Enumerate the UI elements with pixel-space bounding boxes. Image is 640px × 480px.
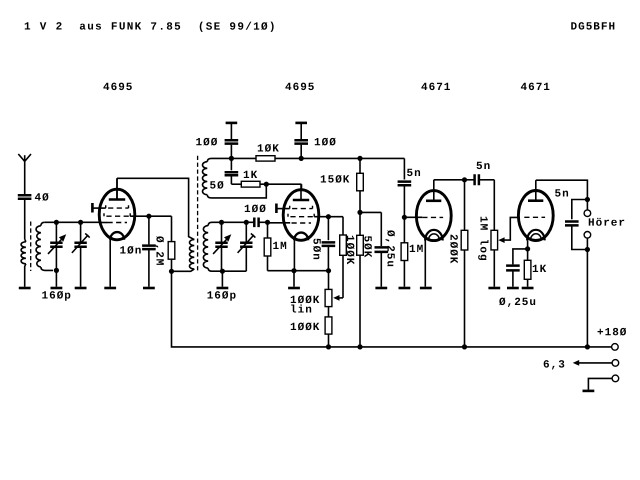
svg-text:1ØØK: 1ØØK [290,322,320,334]
wire grid line stage2 [212,221,253,223]
ground 1K [522,287,534,290]
ground 10n [143,287,155,290]
capacitor 50n [327,217,329,241]
wiper arrow 1M log [498,237,504,243]
capacitor 5n (detector out) [360,157,404,159]
terminal +180 [612,344,619,351]
svg-text:2ØØK: 2ØØK [447,234,459,264]
wire 1M bottom [268,270,329,272]
wire screen line [212,157,257,159]
node [54,268,59,273]
node [291,268,296,273]
node [402,215,407,220]
svg-text:Ø,25u: Ø,25u [384,230,396,268]
node [244,220,249,225]
tube V3 4671 [416,191,451,241]
ground C1 [55,270,57,286]
svg-text:1ØØ: 1ØØ [244,204,267,216]
svg-text:5Ø: 5Ø [209,181,224,193]
ground 0,25u [507,287,519,290]
wire to rail [586,250,588,347]
svg-text:1K: 1K [532,264,547,276]
svg-text:5Øn: 5Øn [310,238,322,261]
wire V4 anode [536,180,588,199]
wire V3 anode [434,179,465,181]
capacitor 100 (second) [295,122,307,125]
ground 1M log [488,287,500,290]
transformer L1 primary [25,239,26,242]
capacitor 50 [230,158,232,170]
node [219,220,224,225]
svg-text:1Øn: 1Øn [119,246,142,258]
resistor 10K [256,156,275,161]
svg-text:1ØK: 1ØK [257,144,280,156]
node [357,156,362,161]
core L1 [30,222,32,272]
capacitor 0,25u [375,247,389,252]
svg-text:4Ø: 4Ø [34,193,49,205]
node [462,177,467,182]
transformer L1 secondary [41,222,45,226]
svg-text:5ØK: 5ØK [361,236,373,259]
wire V4 cathode [527,240,529,249]
node [525,246,530,251]
antenna [18,154,31,161]
node [299,156,304,161]
tube V1 4695 [99,189,135,240]
trimmer capacitor C4 [245,222,247,242]
ground V2 cathode [293,271,295,287]
node [220,269,225,274]
potentiometer 1M log [493,180,495,231]
wire to 0,25u [360,211,381,213]
node [326,344,331,349]
ground 1M [399,287,411,290]
node [146,214,151,219]
svg-text:1ØØ: 1ØØ [314,137,337,149]
node [585,197,590,202]
svg-text:Ø,2M: Ø,2M [153,236,165,266]
supply rail +180 [172,271,612,347]
transformer L2 primary [189,240,194,270]
ground V3 cathode [420,287,432,290]
wire V3 cathode [424,240,426,286]
node [357,344,362,349]
terminal 6,3 heater [612,360,619,367]
svg-text:1K: 1K [243,170,258,182]
resistor 50K [357,235,364,255]
resistor 200K [464,180,466,231]
capacitor 5n (headphone) [572,200,588,220]
capacitor 10n [148,216,150,244]
svg-text:4671: 4671 [520,82,550,94]
svg-text:DG5BFH: DG5BFH [570,22,616,34]
node [326,268,331,273]
svg-text:1M: 1M [409,244,424,256]
resistor 100K (lower) [325,317,332,334]
wire to V2 anode [301,184,303,190]
trimmer capacitor C2 [80,222,82,242]
resistor 1M (V3 grid) [403,217,405,243]
wire V1 cathode [109,240,111,287]
svg-text:1ØØK: 1ØØK [343,235,355,265]
node [265,220,270,225]
svg-text:15ØK: 15ØK [320,175,350,187]
svg-text:4695: 4695 [285,82,315,94]
svg-text:5n: 5n [554,189,569,201]
wire V2 grid2 right [314,216,343,218]
headphone terminal bottom [584,232,591,239]
terminal heater ground [612,375,619,382]
svg-text:5n: 5n [476,161,491,173]
wire V1 grid left [99,222,107,224]
resistor 1K [231,183,241,185]
resistor 0,2M [171,216,173,241]
capacitor 40 [18,195,32,199]
svg-text:1ØØ: 1ØØ [195,137,218,149]
svg-text:Ø,25u: Ø,25u [499,297,537,309]
node [169,269,174,274]
node [264,182,269,187]
node [78,220,83,225]
ground stage2 tank [221,271,223,287]
wire grid line stage1 [45,221,100,223]
ground antenna coil [19,287,31,290]
headphone terminal top [586,200,588,210]
resistor 100K (to wiper) [342,217,344,235]
tube V4 4671 [518,191,553,241]
svg-text:16Øp: 16Øp [207,291,237,303]
svg-text:1M log: 1M log [477,216,489,262]
wire to V2 grid [268,222,291,224]
svg-text:16Øp: 16Øp [41,291,71,303]
svg-text:+18Ø: +18Ø [597,327,627,339]
capacitor 0,25u (V4 cathode) [513,249,528,265]
resistor 1M (grid leak V2) [267,222,269,238]
wire antenna to coil [24,200,26,239]
wire V1 anode to L2 primary [117,178,194,239]
resistor 150K [359,158,361,173]
node [462,344,467,349]
svg-text:1M: 1M [272,241,287,253]
svg-text:Hörer: Hörer [588,218,626,230]
node [326,214,331,219]
transformer L2 secondary [208,222,212,225]
node [585,344,590,349]
node [585,247,590,252]
capacitor 100 coupling [254,218,258,228]
wire to V3 grid [404,216,422,218]
capacitor 5n coupling [465,179,475,181]
wire V2 cathode [293,240,295,271]
ground V1 cathode [104,287,116,290]
transformer L2 feedback winding 50 [207,158,211,161]
potentiometer 100K lin [328,271,330,290]
ground C2 [75,287,87,290]
svg-text:4695: 4695 [103,82,133,94]
svg-text:1 V 2 aus FUNK 7.85 (SE 99/1: 1 V 2 aus FUNK 7.85 (SE 99/1Ø) [24,22,277,34]
wire V1 grid right to 0,2M [130,215,171,217]
variable capacitor C1 160p [55,222,57,242]
svg-text:4671: 4671 [421,82,451,94]
core L2 [197,156,199,272]
node [54,220,59,225]
ground 0,25u [375,287,387,290]
node [357,210,362,215]
resistor 1K (V4 cathode) [527,249,529,260]
wiper arrow into pot [340,297,344,299]
tube V2 4695 [283,190,319,241]
svg-text:5n: 5n [406,168,421,180]
variable capacitor C3 160p [221,222,223,242]
node [229,156,234,161]
svg-text:6,3: 6,3 [543,360,566,372]
capacitor 100 (first) [226,122,238,125]
svg-text:lin: lin [290,305,313,317]
